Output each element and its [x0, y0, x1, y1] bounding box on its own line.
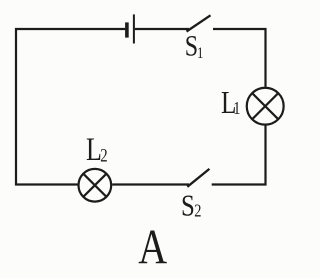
svg-text:2: 2 — [100, 145, 107, 166]
svg-text:A: A — [138, 219, 167, 274]
switch S1 label — [185, 29, 204, 63]
switch S2 lever — [187, 169, 209, 187]
wire top-right corner (S1 to lamp L1) — [213, 29, 266, 87]
lamp L2 label — [86, 132, 108, 167]
lamp L1 label — [221, 86, 240, 120]
switch S1 lever — [187, 15, 211, 31]
switch S2 label — [181, 189, 201, 223]
wire left loop (top-left segment, left side, bottom-left segment) — [16, 29, 125, 185]
svg-text:S: S — [181, 189, 195, 223]
wire top middle (battery to switch S1) — [135, 28, 189, 30]
svg-text:S: S — [185, 29, 198, 62]
battery cell — [127, 14, 134, 43]
svg-text:2: 2 — [194, 200, 201, 221]
wire bottom middle (S2 to L2) — [112, 183, 189, 185]
lamp L2 — [79, 169, 112, 202]
lamp L1 — [247, 88, 284, 125]
wire bottom-right corner (L1 to S2) — [212, 126, 266, 185]
svg-text:1: 1 — [197, 45, 203, 63]
svg-text:1: 1 — [233, 97, 240, 118]
